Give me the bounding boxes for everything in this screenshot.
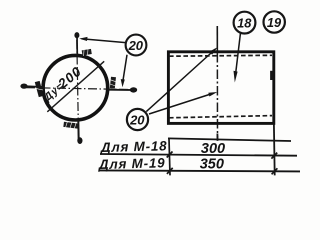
leader A from lower 20 to seam at top edge	[146, 47, 217, 111]
paper background	[0, 0, 309, 194]
flange tab left (bold slash)	[36, 82, 43, 97]
right stud	[108, 87, 137, 92]
svg-text:300: 300	[201, 141, 225, 157]
leader from upper 20 to top stud	[79, 37, 126, 43]
callout 18	[234, 12, 256, 34]
svg-text:18: 18	[237, 16, 252, 31]
svg-text:350: 350	[200, 156, 224, 172]
tick T2 left	[167, 152, 173, 158]
weld mark on right edge	[270, 71, 273, 80]
svg-text:20: 20	[128, 38, 144, 53]
callout 19	[264, 11, 285, 32]
table left divider	[169, 139, 170, 176]
flange tab top (hatched)	[82, 48, 92, 56]
svg-text:19: 19	[267, 15, 282, 30]
left stud	[20, 84, 44, 89]
flange outer circle	[43, 55, 108, 120]
label Ду=200	[40, 63, 85, 104]
svg-text:20: 20	[129, 112, 145, 127]
table line T3	[99, 170, 300, 171]
weld seam vertical centerline	[216, 53, 218, 141]
pipe rectangle	[168, 52, 273, 124]
flange tab bottom (hatched)	[63, 121, 78, 129]
table right divider	[273, 124, 276, 176]
vertical centerline of flange	[77, 40, 79, 140]
leader from upper 20 down to right stud	[121, 55, 127, 87]
svg-text:Для М-18: Для М-18	[100, 138, 168, 155]
table line T2	[100, 154, 297, 156]
callout 20 upper	[126, 35, 147, 56]
callout 20 lower	[127, 109, 148, 130]
tick T3 right	[272, 168, 278, 174]
centerline end thick	[216, 134, 218, 141]
top stud	[74, 32, 79, 56]
leader from 18 into pipe	[234, 34, 241, 83]
hidden line top	[169, 54, 272, 57]
hidden line bottom	[169, 116, 272, 118]
weld seam vertical centerline upper solid	[216, 26, 218, 53]
leader B from lower 20 to seam mid	[149, 92, 217, 114]
horizontal centerline of flange	[26, 88, 136, 90]
diagonal diameter line	[47, 61, 104, 112]
tick T3 left	[167, 168, 173, 174]
tick T2 right	[271, 153, 277, 159]
flange tab right (hatched)	[109, 77, 116, 89]
table line T1	[168, 138, 291, 141]
bottom stud	[77, 120, 82, 144]
svg-text:Для М-19: Для М-19	[98, 155, 166, 172]
